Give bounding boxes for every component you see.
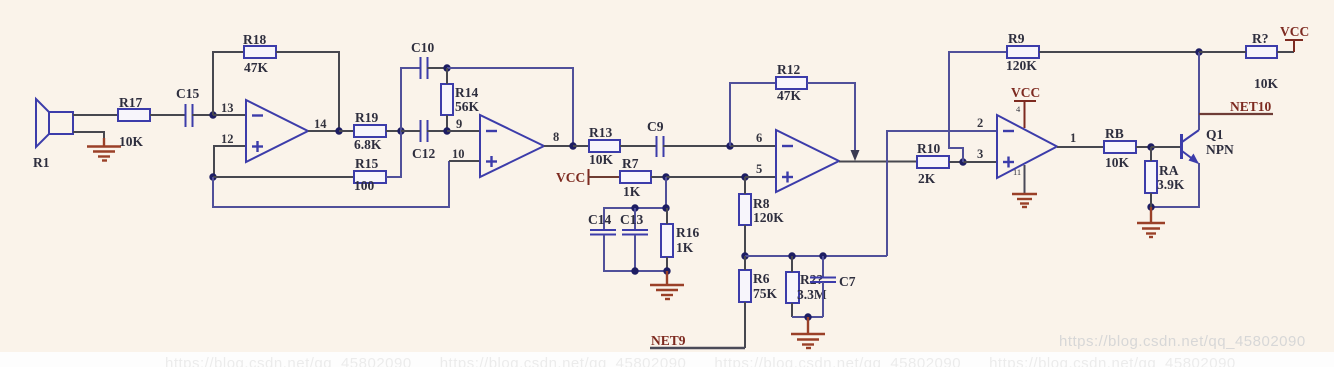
svg-text:10K: 10K [1254,76,1279,91]
collector wire [1198,52,1200,130]
svg-text:13: 13 [221,101,234,115]
wire C13 bottom [634,235,636,271]
wire R19 to node B [386,130,401,132]
top rail caps [604,208,666,229]
capacitor C14 [588,212,616,235]
microphone R1 [33,99,73,170]
resistor R16 [661,208,699,271]
svg-text:RB: RB [1105,126,1124,141]
net NET9 [650,333,745,348]
ground G1 [87,138,121,161]
wire R18 to node 14 [276,52,339,131]
svg-text:R9: R9 [1008,31,1025,46]
svg-text:2: 2 [977,116,983,130]
svg-text:100: 100 [354,178,375,193]
pin 5 stub [745,176,776,178]
wire R17 to C15 [150,114,185,116]
resistor RB [1104,126,1136,170]
wire C12 right [427,130,447,132]
node RA bottom junction [1147,203,1154,210]
svg-text:VCC: VCC [556,170,585,185]
op-amp U1C [776,130,839,192]
pin 3 stub [963,161,997,163]
node 5 junction [741,173,748,180]
svg-text:C12: C12 [412,146,435,161]
op-amp U1D [997,115,1057,178]
svg-text:C14: C14 [588,212,611,227]
svg-text:14: 14 [314,117,327,131]
wire R10 to node 3 [949,161,963,163]
svg-text:VCC: VCC [1280,24,1309,39]
capacitor C10 [411,40,434,79]
resistor R12 [776,62,807,103]
svg-text:NET10: NET10 [1230,99,1272,114]
wire node14 to R19 [339,130,354,132]
resistor R18 [243,32,276,75]
svg-text:75K: 75K [753,286,778,301]
pin 13 stub [213,114,246,116]
svg-text:R7: R7 [622,156,639,171]
svg-text:6: 6 [756,131,762,145]
node A junction R8 [741,252,748,259]
svg-text:R8: R8 [753,196,770,211]
capacitor C12 [412,120,435,161]
resistor R9 [1006,31,1039,73]
svg-text:NET9: NET9 [651,333,686,348]
ground pin 11 op-amp [1012,165,1037,207]
svg-text:1: 1 [1070,131,1076,145]
VCC port right [1280,24,1309,52]
VCC port left [556,169,620,185]
base wire [1151,146,1180,148]
resistor R17 [118,95,150,149]
node A rail [745,255,887,257]
bottom white strip [0,352,1334,367]
base node junction [1147,143,1154,150]
node C13 top junction [631,204,638,211]
wire C9 to node 6 [663,145,730,147]
svg-text:https://blog.csdn.net/qq_45802: https://blog.csdn.net/qq_45802090 [1059,333,1306,350]
svg-text:1K: 1K [623,184,641,199]
resistor R7 [620,156,651,199]
bottom rail R27 C7 [792,316,823,318]
wire node D down [665,177,667,208]
capacitor C7 [810,256,856,317]
op-amp U1A [246,100,308,162]
ground G4 [1137,207,1165,237]
svg-text:10: 10 [452,147,465,161]
svg-text:NPN: NPN [1206,142,1234,157]
wire C15 to node 13 [192,114,213,116]
wire node B up to C10 [401,68,420,131]
svg-text:12: 12 [221,132,234,146]
svg-text:1K: 1K [676,240,694,255]
svg-text:47K: 47K [777,88,802,103]
svg-text:R17: R17 [119,95,142,110]
wire R15 left [213,176,354,178]
wire C12 left [401,130,420,132]
pin 10 stub [449,160,480,162]
svg-text:10K: 10K [589,152,614,167]
transistor Q1 [1182,127,1234,164]
node C13 bottom junction [631,267,638,274]
svg-text:VCC: VCC [1011,85,1040,100]
svg-text:R1: R1 [33,155,50,170]
svg-text:C15: C15 [176,86,199,101]
wire mic bottom to ground [73,132,104,140]
wire R7 to node D [651,176,666,178]
pin 8 output stub [544,145,573,147]
svg-text:C13: C13 [620,212,643,227]
node 8 junction [569,142,576,149]
svg-text:R18: R18 [243,32,266,47]
svg-text:R10: R10 [917,141,940,156]
node 13 junction [209,111,216,118]
pin 6 stub [730,145,776,147]
wire R9 to node E [1039,51,1199,53]
pin 14 output stub [308,130,339,132]
wire pin10 net [213,161,449,207]
svg-text:3.9K: 3.9K [1157,177,1185,192]
svg-text:R2?: R2? [800,272,823,287]
resistor R15 [354,156,386,193]
svg-text:6.8K: 6.8K [354,137,382,152]
wire node8 to R13 [573,145,589,147]
node 14 junction [335,127,342,134]
svg-text:11: 11 [1013,167,1021,177]
wire node3 jog up to R9 [949,52,1007,162]
svg-text:C9: C9 [647,119,664,134]
svg-text:https://blog.csdn.net/qq_45802: https://blog.csdn.net/qq_45802090 https:… [165,355,1236,367]
svg-text:R19: R19 [355,110,378,125]
wire R12 down to output with arrow [807,83,860,161]
svg-text:2K: 2K [918,171,936,186]
node C junction [443,64,450,71]
node A junction R27 [788,252,795,259]
wire node D to pin5 [666,176,745,178]
svg-text:10K: 10K [1105,155,1130,170]
ground G2 [650,271,684,299]
pin 1 output wire [1057,146,1104,148]
svg-text:R13: R13 [589,125,612,140]
svg-text:Q1: Q1 [1206,127,1224,142]
resistor R14 [441,68,480,131]
svg-text:R6: R6 [753,271,770,286]
net NET10 [1199,99,1273,114]
capacitor C9 [647,119,664,157]
pin 7 output wire [839,161,917,163]
svg-text:10K: 10K [119,134,144,149]
wire node6 up to R12 [730,83,776,146]
svg-text:R14: R14 [455,85,478,100]
wire R15 right up to node B [386,131,401,177]
svg-text:RA: RA [1159,163,1179,178]
wire C10 to node C [427,67,447,69]
node 6 junction [726,142,733,149]
wire node C to node 8 [447,68,573,146]
svg-text:120K: 120K [753,210,784,225]
op-amp U1B [480,115,544,177]
ground G3 [791,317,825,348]
node E junction [1195,48,1202,55]
svg-text:120K: 120K [1006,58,1037,73]
node R16 top junction [662,204,669,211]
svg-text:3: 3 [977,147,983,161]
resistor R8 [739,177,784,256]
VCC port op-amp pin 4 [1011,85,1040,128]
svg-text:8: 8 [553,130,559,144]
resistor R6 [739,256,778,348]
bottom rail caps [604,235,667,271]
svg-text:C10: C10 [411,40,434,55]
capacitor C15 [176,86,199,127]
svg-text:56K: 56K [455,99,480,114]
resistor R10 [917,141,949,186]
node ground junction [804,313,811,320]
wire RB to base node [1136,146,1151,148]
svg-text:47K: 47K [244,60,269,75]
resistor R19 [354,110,386,152]
pin 9 stub [447,130,480,132]
capacitor C13 [620,208,648,235]
svg-text:R15: R15 [355,156,378,171]
svg-text:5: 5 [756,162,762,176]
wire R13 to C9 [620,145,656,147]
wire node A up to pin 2 [887,131,997,256]
svg-text:R16: R16 [676,225,699,240]
node B junction [397,127,404,134]
svg-text:R?: R? [1252,31,1269,46]
svg-text:R12: R12 [777,62,800,77]
svg-text:9: 9 [456,117,462,131]
node 3 junction [959,158,966,165]
node pin12/R15 junction [209,173,216,180]
resistor R13 [589,125,620,167]
node A junction C7 [819,252,826,259]
resistor RA [1145,147,1185,207]
resistor R? [1199,31,1294,91]
node D junction [662,173,669,180]
svg-text:C7: C7 [839,274,856,289]
wire mic top to R17 [73,114,118,116]
node R16 bottom junction [663,267,670,274]
wire pin12 jog [214,146,246,177]
resistor R27 [786,256,827,317]
wire node13 up to R18 [213,52,244,115]
emitter wire [1151,163,1199,207]
node 9 junction [443,127,450,134]
